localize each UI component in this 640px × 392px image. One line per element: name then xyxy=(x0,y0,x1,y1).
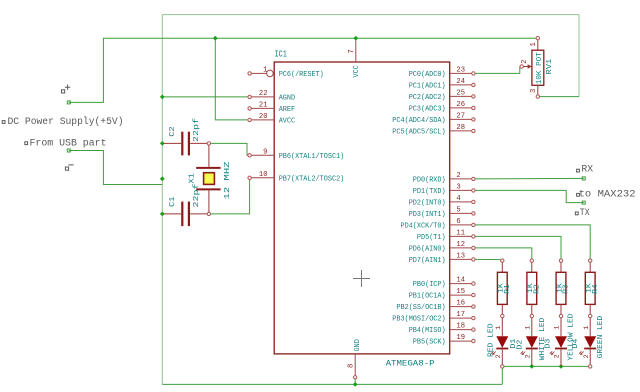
pin 16 stub xyxy=(450,306,472,308)
svg-text:RED LED: RED LED xyxy=(487,323,495,357)
svg-text:YELLOW LED: YELLOW LED xyxy=(567,313,575,361)
svg-text:11: 11 xyxy=(456,229,465,237)
svg-text:R4: R4 xyxy=(592,284,600,294)
pin 28 stub xyxy=(450,130,472,132)
pin 15 circle xyxy=(472,293,475,296)
svg-text:24: 24 xyxy=(456,78,465,86)
svg-text:18: 18 xyxy=(456,323,465,331)
resistor R4 body xyxy=(585,272,595,304)
LED D4 cathode bar xyxy=(584,348,596,350)
capacitor C2 pin circle xyxy=(207,142,210,145)
svg-text:PD0(RXD): PD0(RXD) xyxy=(413,177,446,185)
svg-text:26: 26 xyxy=(456,101,465,109)
svg-text:PD7(AIN1): PD7(AIN1) xyxy=(409,257,446,265)
wire pot pin3 to right rail xyxy=(540,96,580,98)
resistor R1 bottom lead xyxy=(501,304,503,314)
svg-text:1: 1 xyxy=(530,42,538,46)
pin 26 circle xyxy=(472,106,475,109)
pin 23 circle xyxy=(472,72,475,75)
capacitor C1 plates xyxy=(181,202,183,227)
pin 26 stub xyxy=(450,107,472,109)
svg-text:2: 2 xyxy=(456,172,460,180)
resistor R3 bottom circle xyxy=(559,314,562,317)
wire RX net xyxy=(475,177,584,180)
svg-text:From USB part: From USB part xyxy=(30,137,107,148)
resistor R3 body xyxy=(556,272,566,304)
minus terminal pad xyxy=(65,167,68,170)
svg-text:R2: R2 xyxy=(534,284,542,294)
resistor R1 top circle xyxy=(501,259,504,262)
pin 22 circle xyxy=(248,95,251,98)
pin 8 GND stub xyxy=(354,354,356,376)
label TX pad xyxy=(575,212,578,215)
potentiometer RV1 pin3 circle xyxy=(536,95,539,98)
svg-text:X1: X1 xyxy=(189,173,197,184)
svg-text:2: 2 xyxy=(495,354,502,358)
svg-text:14: 14 xyxy=(456,277,465,285)
wire AVCC branch xyxy=(215,38,248,120)
pin 11 circle xyxy=(472,235,475,238)
resistor R2 body xyxy=(527,272,537,304)
svg-text:GND: GND xyxy=(354,339,362,351)
svg-text:PB0(ICP): PB0(ICP) xyxy=(413,281,446,289)
LED D1 cathode rail circle xyxy=(501,365,504,368)
svg-text:RV1: RV1 xyxy=(546,58,554,74)
svg-text:7: 7 xyxy=(348,49,356,53)
LED D1 triangle xyxy=(496,336,508,348)
svg-text:17: 17 xyxy=(456,311,465,319)
svg-text:10K POT: 10K POT xyxy=(536,52,544,84)
pin 24 stub xyxy=(450,84,472,86)
svg-text:PD3(INT1): PD3(INT1) xyxy=(409,211,446,219)
pin 21 circle xyxy=(248,107,251,110)
pin 9 circle xyxy=(248,154,251,157)
junction +5V/AVCC xyxy=(213,36,218,41)
wire +5V from plus terminal xyxy=(69,38,536,102)
pin 19 stub xyxy=(450,340,472,342)
wire GND top rail xyxy=(162,14,579,16)
LED D3 anode lead xyxy=(560,318,562,336)
svg-text:21: 21 xyxy=(259,101,268,109)
svg-text:PD5(T1): PD5(T1) xyxy=(417,234,446,242)
junction GND/C1 xyxy=(160,212,165,217)
TX wire end square xyxy=(582,201,585,204)
svg-text:22pf: 22pf xyxy=(193,183,201,208)
junction GND pin 8 xyxy=(353,382,358,387)
pin 5 stub xyxy=(450,212,472,214)
pin 13 circle xyxy=(472,258,475,261)
svg-text:22: 22 xyxy=(259,90,268,98)
svg-text:1: 1 xyxy=(525,326,532,330)
svg-text:PB3(MOSI/OC2): PB3(MOSI/OC2) xyxy=(392,316,445,324)
LED D3 cathode lead xyxy=(560,349,562,367)
svg-text:R3: R3 xyxy=(563,284,571,294)
label to MAX232 pad xyxy=(577,193,580,196)
junction +5V/VCC xyxy=(353,36,358,41)
svg-text:GREEN LED: GREEN LED xyxy=(597,315,605,358)
minus terminal symbol xyxy=(68,164,73,166)
LED D4 cathode lead xyxy=(589,349,591,367)
LED D2 cathode lead xyxy=(531,349,533,367)
potentiometer RV1 wiper circle xyxy=(520,65,523,68)
svg-text:9: 9 xyxy=(263,148,267,156)
LED D3 emission arrows xyxy=(550,351,555,355)
potentiometer RV1 bottom lead xyxy=(537,85,539,95)
capacitor C1 pin circle xyxy=(207,212,210,215)
svg-text:1: 1 xyxy=(583,326,590,330)
plus terminal symbol xyxy=(65,85,70,90)
LED D2 emission arrows xyxy=(521,351,526,355)
svg-text:4: 4 xyxy=(456,195,460,203)
resistor R1 bottom circle xyxy=(501,314,504,317)
crystal X1 body xyxy=(204,173,215,185)
svg-text:PC5(ADC5/SCL): PC5(ADC5/SCL) xyxy=(392,129,445,137)
pin 12 stub xyxy=(450,247,472,249)
svg-text:6: 6 xyxy=(456,218,460,226)
svg-text:VCC: VCC xyxy=(353,65,361,77)
svg-text:PB1(OC1A): PB1(OC1A) xyxy=(409,293,446,301)
pin 20 stub xyxy=(252,119,275,121)
svg-text:PB2(SS/OC1B): PB2(SS/OC1B) xyxy=(396,304,445,312)
label DC Power Supply pad xyxy=(2,121,5,124)
svg-text:PD6(AIN0): PD6(AIN0) xyxy=(409,246,446,254)
svg-text:PB7(XTAL2/TOSC2): PB7(XTAL2/TOSC2) xyxy=(279,175,345,183)
plus wire end square xyxy=(67,101,70,104)
pin 16 circle xyxy=(472,305,475,308)
pin 24 circle xyxy=(472,83,475,86)
LED D1 emission arrows xyxy=(491,351,496,355)
wire GND right rail xyxy=(578,15,580,97)
pin 17 circle xyxy=(472,316,475,319)
pin 14 circle xyxy=(472,282,475,285)
capacitor C2 left lead xyxy=(164,142,182,144)
pin 25 stub xyxy=(450,95,472,97)
svg-text:10: 10 xyxy=(259,171,268,179)
junction GND/AGND xyxy=(160,95,165,100)
svg-text:PC4(ADC4/SDA): PC4(ADC4/SDA) xyxy=(392,117,445,125)
svg-text:R1: R1 xyxy=(504,284,512,294)
wire PD5 to R3 xyxy=(475,236,561,259)
svg-text:TX: TX xyxy=(580,207,590,218)
wire XTAL2 net xyxy=(211,180,250,214)
svg-text:AVCC: AVCC xyxy=(279,118,295,126)
pin 6 stub xyxy=(450,224,472,226)
svg-text:RX: RX xyxy=(581,164,593,175)
pin 4 stub xyxy=(450,201,472,203)
plus terminal pad xyxy=(62,90,65,93)
potentiometer RV1 wiper arrow xyxy=(523,66,529,68)
svg-text:IC1: IC1 xyxy=(275,49,287,60)
LED D3 cathode bar xyxy=(555,348,567,350)
junction D3 cathode xyxy=(559,364,564,369)
LED D4 cathode rail circle xyxy=(589,365,592,368)
LED D4 triangle xyxy=(584,336,596,348)
resistor R3 top circle xyxy=(559,259,562,262)
label From USB part pad xyxy=(25,142,28,145)
svg-text:PC3(ADC3): PC3(ADC3) xyxy=(409,106,446,114)
svg-text:20: 20 xyxy=(259,113,268,121)
resistor R2 top lead xyxy=(531,262,533,272)
svg-text:28: 28 xyxy=(456,124,465,132)
svg-text:19: 19 xyxy=(456,334,465,342)
pin 10 circle xyxy=(248,176,251,179)
pin 1 inversion bubble xyxy=(267,70,274,77)
pin 19 circle xyxy=(472,339,475,342)
svg-text:PD1(TXD): PD1(TXD) xyxy=(413,188,446,196)
minus wire end square xyxy=(67,149,70,152)
svg-text:D4: D4 xyxy=(572,338,580,349)
svg-text:PB6(XTAL1/TOSC1): PB6(XTAL1/TOSC1) xyxy=(279,153,345,161)
junction D2 cathode xyxy=(529,364,534,369)
crystal X1 top lead xyxy=(208,145,210,167)
svg-text:13: 13 xyxy=(456,252,465,260)
svg-text:16: 16 xyxy=(456,300,465,308)
pin 18 stub xyxy=(450,329,472,331)
pin 9 stub xyxy=(252,154,275,156)
pin 11 stub xyxy=(450,235,472,237)
pin 20 circle xyxy=(248,118,251,121)
pin 1 stub xyxy=(252,72,267,74)
pin 3 circle xyxy=(472,189,475,192)
pin 7 VCC stub xyxy=(355,40,357,62)
junction GND/C2 xyxy=(160,141,165,146)
svg-text:to MAX232: to MAX232 xyxy=(579,188,636,199)
wire GND pin drop xyxy=(354,379,356,385)
LED D1 anode lead xyxy=(501,318,503,336)
svg-text:PB4(MISO): PB4(MISO) xyxy=(409,327,446,335)
svg-text:1: 1 xyxy=(263,66,267,74)
svg-text:1: 1 xyxy=(495,326,502,330)
capacitor C2 right lead xyxy=(190,142,207,144)
pin 2 stub xyxy=(450,178,472,180)
svg-text:D3: D3 xyxy=(545,338,553,349)
resistor R2 bottom circle xyxy=(530,314,533,317)
pin 18 circle xyxy=(472,328,475,331)
crystal X1 bottom lead xyxy=(208,190,210,212)
resistor R3 top lead xyxy=(560,262,562,272)
pin 17 stub xyxy=(450,317,472,319)
wire from minus terminal xyxy=(69,151,163,185)
junction GND/minus wire xyxy=(160,176,165,181)
wire GND bottom rail xyxy=(162,383,502,385)
pin 21 stub xyxy=(252,107,275,109)
svg-text:25: 25 xyxy=(456,89,465,97)
pin 28 circle xyxy=(472,129,475,132)
wire PC0 to pot wiper xyxy=(475,67,520,74)
svg-text:12: 12 xyxy=(456,241,465,249)
capacitor C2 plates xyxy=(181,132,183,156)
pin 22 stub xyxy=(252,96,275,98)
resistor R4 top circle xyxy=(589,259,592,262)
svg-text:2: 2 xyxy=(583,354,590,358)
LED D2 triangle xyxy=(526,336,538,348)
svg-text:PC6(/RESET): PC6(/RESET) xyxy=(279,71,324,79)
pin 5 circle xyxy=(472,212,475,215)
LED D1 cathode lead xyxy=(501,349,503,367)
svg-text:PD2(INT0): PD2(INT0) xyxy=(409,200,446,208)
wire LED cathode rail xyxy=(502,366,590,384)
pin 13 stub xyxy=(450,258,472,260)
LED D2 cathode bar xyxy=(526,348,538,350)
pin 14 stub xyxy=(450,283,472,285)
wire PD7 to R1 xyxy=(475,258,502,260)
pin 27 stub xyxy=(450,118,472,120)
svg-text:23: 23 xyxy=(456,66,465,74)
resistor R1 body xyxy=(497,272,507,304)
svg-text:2: 2 xyxy=(521,60,529,64)
pin 10 stub xyxy=(252,177,275,179)
LED D3 triangle xyxy=(555,336,567,348)
svg-text:C2: C2 xyxy=(169,126,177,137)
svg-text:ATMEGA8-P: ATMEGA8-P xyxy=(386,359,435,368)
svg-text:15: 15 xyxy=(456,288,465,296)
capacitor C1 right lead xyxy=(190,213,207,215)
svg-text:8: 8 xyxy=(348,364,356,368)
pin 8 circle xyxy=(354,376,357,379)
capacitor C1 left lead xyxy=(164,213,182,215)
pin 23 stub xyxy=(450,72,472,74)
wire TX net xyxy=(475,190,584,202)
crystal X1 bottom plate xyxy=(196,188,220,190)
wire PD6 to R2 xyxy=(475,248,532,259)
pin 6 circle xyxy=(472,223,475,226)
wire XTAL1 net xyxy=(211,143,248,155)
potentiometer RV1 pin1 circle xyxy=(536,37,539,40)
svg-text:D2: D2 xyxy=(516,340,524,350)
potentiometer RV1 top lead xyxy=(537,40,539,50)
origin crosshair xyxy=(353,270,370,287)
LED D1 cathode bar xyxy=(496,348,508,350)
wire GND left rail xyxy=(161,15,163,385)
potentiometer RV1 body xyxy=(532,50,544,85)
svg-text:5: 5 xyxy=(456,206,460,214)
svg-text:PD4(XCK/T0): PD4(XCK/T0) xyxy=(401,223,446,231)
svg-text:PC0(ADC0): PC0(ADC0) xyxy=(409,71,446,79)
pin 27 circle xyxy=(472,118,475,121)
svg-text:C1: C1 xyxy=(169,196,177,207)
svg-text:27: 27 xyxy=(456,112,465,120)
pin 15 stub xyxy=(450,294,472,296)
svg-text:PB5(SCK): PB5(SCK) xyxy=(413,339,446,347)
wire PD4 to R4 xyxy=(475,225,590,259)
wire AGND branch xyxy=(162,96,248,98)
resistor R4 bottom lead xyxy=(589,304,591,314)
svg-text:22pf: 22pf xyxy=(193,117,201,142)
RX wire end square xyxy=(582,177,585,180)
LED D2 anode lead xyxy=(531,318,533,336)
svg-text:3: 3 xyxy=(530,89,538,93)
svg-text:PC1(ADC1): PC1(ADC1) xyxy=(409,83,446,91)
svg-text:12 MHZ: 12 MHZ xyxy=(224,161,232,200)
resistor R2 top circle xyxy=(530,259,533,262)
svg-text:PC2(ADC2): PC2(ADC2) xyxy=(409,94,446,102)
pin 2 circle xyxy=(472,177,475,180)
pin 25 circle xyxy=(472,95,475,98)
pin 12 circle xyxy=(472,246,475,249)
resistor R3 bottom lead xyxy=(560,304,562,314)
svg-text:1: 1 xyxy=(554,326,561,330)
resistor R4 bottom circle xyxy=(589,314,592,317)
resistor R4 top lead xyxy=(589,262,591,272)
LED D4 emission arrows xyxy=(579,351,584,355)
pin 3 stub xyxy=(450,189,472,191)
LED D4 anode lead xyxy=(589,318,591,336)
label RX pad xyxy=(577,169,580,172)
op-amp?? no: IC U1 body ATMEGA8 xyxy=(274,62,450,354)
resistor R2 bottom lead xyxy=(531,304,533,314)
pin 4 circle xyxy=(472,200,475,203)
svg-text:AGND: AGND xyxy=(279,95,295,103)
svg-text:2: 2 xyxy=(525,354,532,358)
svg-text:3: 3 xyxy=(456,183,460,191)
svg-text:DC Power Supply(+5V): DC Power Supply(+5V) xyxy=(8,116,124,127)
pin 1 circle xyxy=(248,72,251,75)
resistor R1 top lead xyxy=(501,262,503,272)
svg-text:2: 2 xyxy=(554,354,561,358)
svg-text:AREF: AREF xyxy=(279,106,295,114)
crystal X1 top plate xyxy=(196,167,220,169)
